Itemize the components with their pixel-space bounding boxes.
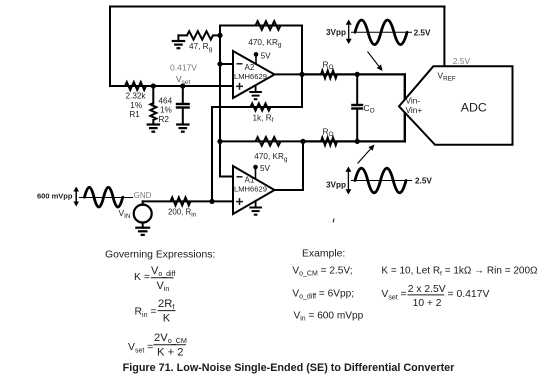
sine centerline (top) — [351, 31, 412, 33]
A1 minus sign — [237, 176, 243, 178]
svg-text:R2: R2 — [159, 115, 170, 124]
svg-text:= 0.417V: = 0.417V — [448, 289, 490, 300]
svg-text:K: K — [163, 313, 171, 325]
node A1 output junction — [300, 139, 305, 144]
wire R2 top stub — [152, 86, 154, 104]
sine centerline (bottom) — [351, 180, 412, 182]
svg-text:10 + 2: 10 + 2 — [413, 298, 442, 309]
ADC block pentagon — [399, 66, 513, 145]
wire R2 bottom stub — [152, 120, 154, 125]
svg-text:2.5V: 2.5V — [415, 177, 432, 186]
A2 plus sign — [236, 85, 243, 87]
wire bottom output rail — [303, 140, 405, 142]
op-amp A1 triangle — [233, 166, 275, 214]
wire A1 output riser — [302, 141, 304, 190]
wire Vset horizontal rail — [110, 85, 233, 87]
wire Co bottom stub — [356, 109, 358, 142]
resistor KRg 470 (A1 feedback) — [256, 137, 281, 146]
wire Rg to bus — [213, 34, 220, 36]
wire A1 feedback — [220, 140, 303, 142]
wire Rg stub — [178, 34, 187, 36]
resistor R2 464 — [150, 103, 156, 120]
svg-text:1%: 1% — [130, 101, 142, 110]
svg-text:Governing Expressions:: Governing Expressions: — [105, 250, 215, 261]
capacitor C-bypass at Vset — [176, 103, 190, 105]
wire A1 inverting drop — [219, 141, 221, 176]
svg-text:LMH6629: LMH6629 — [234, 185, 267, 194]
resistor Rf 1k — [251, 103, 271, 110]
svg-text:2.5V: 2.5V — [414, 28, 431, 37]
svg-text:2Rf: 2Rf — [158, 298, 174, 311]
node A2 inverting input junction — [217, 61, 222, 66]
wire A2 inverting input — [220, 63, 233, 65]
node A1 inverting feedback junction — [217, 139, 222, 144]
A1 plus sign — [236, 201, 243, 203]
A2 5V supply dot — [254, 52, 259, 57]
svg-text:Figure 71. Low-Noise Single-E: Figure 71. Low-Noise Single-Ended (SE) t… — [123, 362, 456, 374]
sine wave (top output) — [355, 20, 407, 45]
sine wave (input) — [85, 187, 123, 207]
resistor Ro bottom — [321, 138, 337, 146]
resistor Rg 47 — [187, 31, 213, 39]
svg-text:464: 464 — [159, 96, 173, 105]
capacitor Co — [351, 104, 363, 106]
wire top feedback loop (Vset rail to VREF) — [110, 6, 444, 8]
svg-text:5V: 5V — [260, 164, 271, 173]
wire cap bottom stub — [182, 108, 184, 125]
double arrow (input swing) — [75, 191, 77, 203]
double arrow (bottom swing) — [347, 171, 349, 191]
wire A1 inverting input — [220, 176, 233, 178]
svg-text:K =: K = — [134, 272, 150, 283]
ground below A1 — [249, 207, 262, 209]
wire VIN bottom stub — [142, 222, 144, 227]
A2 minus sign — [237, 63, 243, 65]
resistor KRg 470 (A2 feedback) — [256, 21, 281, 30]
wire VIN top stub — [142, 201, 144, 204]
ground below bypass cap — [176, 123, 190, 125]
svg-text:R1: R1 — [129, 110, 140, 119]
wire top output rail — [302, 73, 405, 75]
wire A1 ground stub — [255, 201, 257, 208]
svg-text:2.32k: 2.32k — [126, 92, 147, 101]
wire A2 feedback right vertical — [301, 26, 303, 75]
ground below A2 — [249, 91, 262, 93]
svg-text:K + 2: K + 2 — [157, 346, 183, 358]
svg-text:2.5V: 2.5V — [453, 56, 471, 66]
wire Rf drop to Vin node — [211, 107, 213, 201]
node Vset junction bypass cap — [180, 83, 185, 88]
stray tick mark — [332, 219, 335, 223]
resistor Ro top — [321, 71, 337, 79]
svg-text:3Vpp: 3Vpp — [326, 28, 346, 37]
wire A2 feedback top — [220, 25, 302, 27]
arrow to bottom rail — [358, 149, 371, 164]
wire Co top stub — [356, 74, 358, 105]
svg-text:1%: 1% — [160, 106, 172, 115]
resistor Rin 200 — [171, 197, 191, 205]
svg-text:K = 10, Let Rf = 1kΩ → Rin = 2: K = 10, Let Rf = 1kΩ → Rin = 200Ω — [381, 265, 538, 277]
sine centerline (input) — [79, 197, 133, 199]
A1 5V supply dot — [253, 165, 258, 170]
svg-text:GND: GND — [134, 191, 152, 200]
svg-text:3Vpp: 3Vpp — [326, 181, 346, 190]
wire Rf horizontal — [212, 106, 302, 108]
wire inverting bus vertical (A2/A1 shared) — [219, 26, 221, 142]
node A2 output junction — [299, 72, 304, 77]
resistor R1 2.32k — [125, 82, 146, 90]
source VIN circle — [134, 205, 152, 223]
wire ADC differential bus — [404, 74, 406, 141]
wire VREF drop to ADC — [443, 7, 445, 67]
ground for Rg — [172, 40, 186, 42]
wire A1 output — [275, 189, 304, 191]
ground below VIN — [135, 227, 150, 229]
wire VIN to Rin — [143, 200, 233, 202]
svg-text:0.417V: 0.417V — [170, 62, 197, 72]
svg-text:5V: 5V — [261, 51, 272, 60]
svg-text:Example:: Example: — [302, 249, 345, 260]
ground below R2 — [147, 123, 161, 125]
wire A2 output to Rf vertical — [301, 74, 303, 107]
svg-text:ADC: ADC — [461, 101, 487, 115]
op-amp A2 triangle — [233, 51, 275, 98]
double arrow (top swing) — [348, 24, 350, 40]
svg-text:A1: A1 — [245, 176, 255, 185]
svg-text:LMH6629: LMH6629 — [234, 72, 267, 81]
node Vset junction R2 — [151, 83, 156, 88]
node Co top junction — [355, 72, 360, 77]
sine wave (bottom output) — [355, 168, 406, 193]
wire cap top stub — [182, 86, 184, 104]
wire A2 ground stub — [255, 85, 257, 92]
svg-text:600 mVpp: 600 mVpp — [37, 192, 73, 201]
arrow to top rail — [368, 52, 379, 67]
node Rg junction — [217, 33, 222, 38]
node Rf/Vin junction — [209, 199, 214, 204]
wire left vertical of top loop — [109, 7, 111, 87]
svg-text:Vin+: Vin+ — [406, 105, 423, 115]
wire A2 output — [275, 73, 303, 75]
svg-text:2 x 2.5V: 2 x 2.5V — [408, 284, 446, 295]
node Co bottom junction — [355, 139, 360, 144]
